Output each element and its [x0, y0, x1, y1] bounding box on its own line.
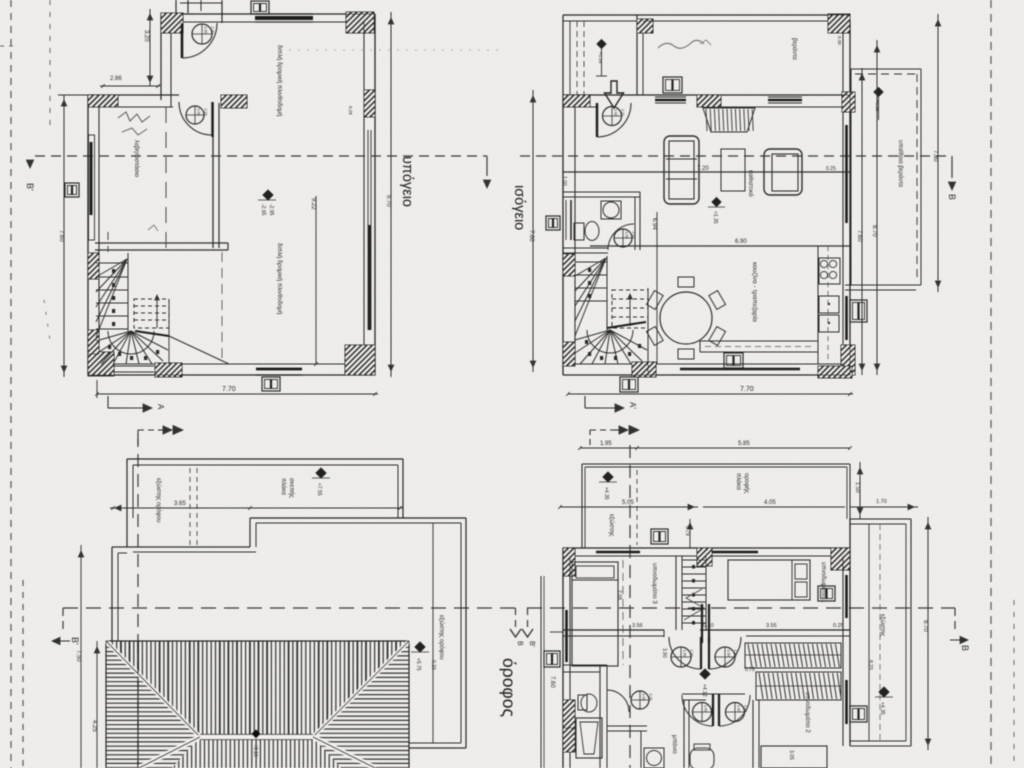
basement bottom door tag square	[262, 377, 280, 391]
svg-text:εξώστης: εξώστης	[608, 514, 614, 536]
upper hall level marker	[700, 669, 710, 679]
upper top wall hatches	[535, 548, 607, 576]
roof level marker 1	[316, 468, 326, 478]
roof terrace dashed chimney	[189, 468, 191, 547]
upper lower door tags	[693, 703, 712, 722]
basement left wall stair hatches	[62, 253, 127, 279]
basement left wall window	[89, 135, 95, 240]
svg-text:+8.10: +8.10	[252, 744, 258, 757]
svg-text:4.25: 4.25	[91, 720, 97, 732]
svg-text:0.30: 0.30	[430, 660, 436, 670]
upper left wall tag	[544, 651, 560, 667]
bedroom3 dashed line	[622, 560, 624, 665]
ground level marker porch	[597, 40, 606, 49]
svg-text:διπλή δρομική πλινθοδομή: διπλή δρομική πλινθοδομή	[276, 45, 283, 116]
basement bottom window left	[114, 365, 154, 367]
section line A upper plan vertical	[629, 445, 631, 768]
upper stair treads	[682, 559, 706, 561]
upper corridor walls	[683, 700, 685, 768]
basement top wall right part	[183, 13, 375, 15]
basement stair treads	[96, 262, 128, 264]
svg-text:Β': Β'	[70, 637, 80, 645]
svg-text:Β: Β	[947, 194, 957, 200]
basement right wall window	[367, 130, 369, 330]
svg-text:+4.35: +4.35	[879, 702, 885, 715]
upper hall door tag right	[715, 647, 735, 667]
basement dim line right 9.70	[390, 12, 392, 377]
svg-text:2.20: 2.20	[621, 109, 625, 116]
scan artifact: right margin dash lines	[990, 0, 992, 768]
svg-text:0.30: 0.30	[837, 36, 842, 45]
roof bottom face vertical hatch	[140, 737, 377, 768]
svg-text:7.60: 7.60	[856, 230, 862, 242]
svg-text:μπάνιο: μπάνιο	[671, 735, 678, 754]
ground sofa	[664, 136, 699, 204]
basement entry door arc	[182, 23, 217, 58]
basement right wall hatch	[337, 90, 403, 117]
section label B' left	[26, 160, 33, 168]
roof top face vertical hatch	[108, 641, 405, 737]
basement stair cut line	[135, 331, 169, 336]
terrace level marker	[874, 88, 883, 97]
svg-text:1.00: 1.00	[625, 232, 629, 239]
basement stair lower fan	[96, 331, 131, 341]
svg-text:7.20: 7.20	[697, 166, 709, 172]
svg-text:7.70: 7.70	[740, 386, 754, 393]
upper closet 2	[756, 672, 841, 700]
boiler room hatch on top wall	[208, 95, 265, 108]
roof hatched surface	[106, 641, 409, 768]
upper hall door arc right	[709, 637, 741, 669]
wall emphasis overlay	[88, 13, 911, 768]
upper hall door leaf left	[700, 637, 702, 669]
svg-text:6.90: 6.90	[735, 239, 747, 245]
roof center level marker	[252, 730, 260, 738]
svg-text:βεράντα: βεράντα	[791, 38, 798, 60]
svg-text:6.94: 6.94	[651, 218, 657, 230]
upper balcony mid line	[868, 524, 870, 741]
basement right wall	[374, 14, 376, 375]
upper corridor washbasin	[644, 748, 664, 768]
basement wall hatch top-left corner	[76, 95, 132, 107]
wc window tag	[546, 216, 560, 230]
section line B-B top plans	[35, 155, 487, 157]
svg-text:3.05: 3.05	[788, 750, 794, 760]
basement dim line left 7.60	[63, 95, 65, 377]
ground kitchen counter right	[817, 246, 819, 364]
roof terrace dim line	[110, 507, 403, 509]
svg-text:8.70: 8.70	[922, 620, 928, 632]
bedroom2 wall	[752, 700, 754, 768]
svg-text:εξώστης: εξώστης	[879, 614, 885, 636]
basement entry hatch block	[141, 13, 205, 33]
svg-text:7.70: 7.70	[222, 386, 236, 393]
ground right wall hatch upper	[822, 92, 881, 112]
basement stair fan arc	[108, 331, 154, 354]
svg-text:-2.65: -2.65	[260, 204, 266, 216]
roof right level marker	[415, 642, 425, 652]
svg-text:όροφος: όροφος	[499, 658, 519, 717]
roof right face horizontal hatch	[310, 643, 409, 768]
ground entry door arrow symbol	[605, 81, 624, 108]
svg-text:0.25: 0.25	[826, 166, 836, 172]
ground left wall	[562, 95, 564, 375]
boiler room bottom wall	[95, 242, 228, 244]
basement level marker	[263, 190, 273, 200]
upper left wall window	[565, 610, 568, 662]
ground table chairs	[678, 349, 694, 359]
basement stair dashed box with arrow	[134, 299, 169, 328]
svg-text:0.75: 0.75	[745, 667, 755, 673]
ground dim verticals right	[861, 68, 863, 375]
ground stair cut line	[607, 322, 646, 328]
svg-text:1.00: 1.00	[727, 650, 731, 657]
bath hatch	[539, 728, 602, 752]
terrace door tag M	[850, 300, 867, 322]
ground main top wall	[563, 94, 850, 96]
basement center dash line piece	[221, 252, 223, 364]
ground porch left edge	[562, 15, 564, 95]
svg-text:8.70: 8.70	[871, 225, 877, 237]
wc door arc	[608, 224, 634, 250]
svg-text:+4.35: +4.35	[603, 487, 609, 500]
svg-text:0.25: 0.25	[833, 623, 844, 629]
basement entry walls going off page top	[175, 0, 177, 13]
wc toilet	[574, 223, 584, 240]
upper dim line 2	[560, 506, 698, 508]
svg-text:1.00: 1.00	[204, 27, 208, 34]
upper small dim arrow	[689, 519, 691, 548]
section line B-B ground plan	[520, 155, 952, 157]
roof right terrace rect	[465, 518, 467, 748]
basement top-right wall hatch	[325, 12, 396, 33]
ground stair fan arc	[587, 330, 633, 353]
svg-text:1.00: 1.00	[614, 109, 618, 116]
ground porch dashed columns	[576, 21, 578, 95]
basement entry door tag	[192, 24, 212, 44]
section line B-B bottom plans	[63, 607, 516, 609]
ground top wall window left	[655, 96, 686, 98]
svg-text:1.00: 1.00	[737, 705, 741, 712]
kitchen stove	[819, 258, 840, 284]
svg-text:2.20: 2.20	[734, 650, 738, 657]
svg-text:1.00: 1.00	[197, 109, 201, 116]
svg-text:διπλή δρομική πλινθοδομή: διπλή δρομική πλινθοδομή	[276, 243, 283, 314]
svg-text:+1.35: +1.35	[598, 52, 603, 64]
svg-text:πλάκα: πλάκα	[280, 478, 287, 495]
ground right terrace outline	[851, 68, 921, 70]
faint scan crease	[280, 49, 500, 51]
svg-text:Β: Β	[516, 641, 523, 646]
svg-text:8.20: 8.20	[867, 660, 873, 670]
basement stair tread numbers	[112, 269, 115, 273]
svg-text:2.20: 2.20	[711, 705, 715, 712]
svg-text:πλάκα: πλάκα	[735, 473, 742, 490]
basement top-left wall	[88, 94, 179, 96]
upper bedroom2 bed	[761, 746, 827, 768]
svg-text:3.90: 3.90	[661, 648, 667, 658]
ground wc walls	[563, 191, 640, 193]
bedroom2 door tag	[850, 706, 867, 722]
svg-text:+1.35: +1.35	[712, 211, 718, 224]
svg-text:+4.12: +4.12	[701, 684, 707, 697]
basement bottom wall hatches	[64, 352, 143, 376]
boiler scribbles	[118, 112, 150, 122]
upper right wall	[849, 519, 851, 746]
upper closet 1	[745, 643, 841, 668]
svg-text:εξώστης ορόφου: εξώστης ορόφου	[155, 478, 162, 523]
section arrow A2 upper	[589, 430, 591, 445]
ground bottom door tag	[620, 377, 638, 392]
ground window tag bottom right	[724, 353, 743, 368]
svg-text:+7.55: +7.55	[316, 483, 322, 496]
upper door tag top	[651, 529, 668, 544]
ground top wall hatch middle	[685, 95, 736, 107]
upper balcony dashed divider	[636, 470, 638, 545]
kitchen counter bottom	[700, 340, 818, 342]
svg-text:εξώστης ορόφου: εξώστης ορόφου	[438, 615, 445, 660]
upper stair zigzag	[684, 589, 704, 620]
ground stair tread numbers	[588, 268, 591, 272]
svg-text:υπαίθρια βεράντα: υπαίθρια βεράντα	[897, 140, 904, 188]
svg-text:λεβητοστάσιο: λεβητοστάσιο	[133, 140, 140, 178]
svg-text:1.00: 1.00	[561, 176, 567, 186]
svg-text:-2.95: -2.95	[268, 204, 274, 216]
upper right wall windows	[845, 575, 848, 618]
upper balcony top outline	[582, 463, 850, 465]
basement interior dim line 9.22	[315, 196, 317, 364]
svg-text:1.00: 1.00	[704, 705, 708, 712]
svg-text:5.05: 5.05	[622, 500, 634, 506]
section arrow A2 roof	[137, 430, 139, 445]
upper hall door arc left	[669, 637, 701, 669]
ground left wall window	[565, 200, 567, 240]
svg-text:5.85: 5.85	[738, 441, 750, 447]
svg-text:2.20: 2.20	[744, 705, 748, 712]
svg-text:1.50: 1.50	[854, 482, 860, 493]
ground entry door tag	[603, 107, 622, 126]
svg-text:2.20: 2.20	[690, 650, 694, 657]
ground level marker living	[712, 198, 721, 207]
svg-text:2.08: 2.08	[616, 590, 622, 600]
upper right balcony outline	[850, 518, 911, 520]
basement entry door leaf	[181, 23, 184, 58]
svg-text:οροφής: οροφής	[743, 473, 750, 493]
ground floor plan	[539, 14, 891, 392]
ground round table	[660, 292, 712, 344]
upper bedroom1 bed	[728, 560, 810, 600]
basement entry side wall	[160, 13, 162, 100]
svg-text:3.65: 3.65	[174, 501, 186, 507]
ground stair lower fan	[575, 330, 610, 340]
svg-text:7.80: 7.80	[932, 150, 938, 162]
basement bottom window dark	[256, 368, 302, 371]
ground top-right corner hatch	[809, 14, 872, 33]
upper balcony level marker	[603, 472, 613, 482]
basement top dim line small	[149, 9, 151, 86]
wc door tag	[614, 229, 632, 247]
ground faint pencil marks	[658, 40, 704, 48]
svg-text:1.00: 1.00	[683, 650, 687, 657]
bath toilet	[578, 695, 587, 710]
boiler room door arc	[179, 102, 212, 135]
upper left dims	[540, 576, 542, 768]
upper left wall	[562, 548, 564, 768]
svg-text:σκεπής: σκεπής	[288, 478, 295, 498]
section line A roof plan vertical	[137, 434, 139, 768]
ground right wall bottom hatch	[811, 345, 891, 375]
ground top wall right part	[643, 20, 850, 22]
ground bottom wall	[563, 374, 850, 376]
svg-text:Β': Β'	[25, 183, 35, 191]
upper left wall hatch	[533, 700, 607, 730]
roof terrace mid line	[432, 523, 434, 743]
svg-text:+5.75: +5.75	[415, 658, 421, 671]
bedroom1 door tag sq	[818, 586, 835, 601]
upper dim verticals right	[859, 462, 861, 519]
ground stair dashed box	[612, 290, 648, 328]
boiler room right wall	[212, 103, 214, 248]
ground dim line 7.20 interior	[563, 171, 850, 173]
svg-text:9.70: 9.70	[385, 195, 391, 207]
svg-text:2.86: 2.86	[110, 76, 122, 82]
boiler room dashed projection lines	[165, 107, 167, 250]
kitchen sink	[819, 296, 839, 313]
svg-text:2.20: 2.20	[204, 109, 208, 116]
svg-text:Β': Β'	[528, 641, 535, 647]
svg-text:2.20: 2.20	[649, 694, 653, 701]
upper hall door leaf right	[708, 637, 710, 669]
upper stair tread numbers	[692, 565, 695, 569]
boiler room door tag	[186, 106, 204, 124]
ground porch divider wall	[636, 15, 638, 95]
basement top tag square	[251, 1, 269, 14]
upper bedroom3 bed	[572, 562, 618, 666]
ground coffee table	[721, 149, 745, 191]
bath shower	[576, 718, 602, 758]
svg-text:2.20: 2.20	[632, 232, 636, 239]
ground stair upper fan	[575, 258, 606, 276]
ground right wall windows dark	[845, 125, 848, 223]
section line A over roof	[137, 641, 139, 768]
bath door arc	[607, 690, 629, 712]
ground entry door arc	[597, 103, 631, 137]
svg-text:Α: Α	[156, 404, 165, 410]
svg-text:1.95: 1.95	[600, 441, 612, 447]
ground bottom window	[680, 368, 800, 371]
svg-text:υπνοδωμάτιο 2: υπνοδωμάτιο 2	[804, 692, 811, 733]
svg-text:3.20: 3.20	[143, 30, 149, 42]
roof terrace band bottom edge	[250, 517, 466, 519]
svg-text:Β: Β	[960, 645, 970, 651]
svg-text:9.22: 9.22	[310, 198, 316, 210]
svg-text:7.50: 7.50	[75, 650, 81, 662]
basement left wall window tag	[65, 183, 79, 197]
svg-text:ισόγειο: ισόγειο	[511, 185, 527, 230]
svg-text:3.55: 3.55	[766, 623, 777, 629]
roof dim verticals left	[80, 545, 82, 768]
svg-text:υπνοδωμάτιο 3: υπνοδωμάτιο 3	[651, 563, 658, 604]
basement bottom wall	[88, 374, 375, 376]
svg-text:1.70: 1.70	[876, 499, 887, 505]
svg-text:κουζίνα - τραπεζαρία: κουζίνα - τραπεζαρία	[751, 262, 759, 322]
ground porch top edge	[563, 14, 850, 16]
svg-text:0.79: 0.79	[684, 526, 690, 536]
svg-text:1.00: 1.00	[642, 694, 646, 701]
ground entry door leaf	[596, 103, 598, 137]
upper bath walls	[599, 665, 601, 768]
svg-text:καθιστικό: καθιστικό	[747, 170, 755, 197]
section elbows B B' center	[515, 608, 517, 630]
ground right wall	[849, 21, 851, 375]
svg-text:4.05: 4.05	[764, 500, 776, 506]
upper lower door pair	[682, 693, 745, 695]
basement left wall	[87, 95, 89, 375]
upper balcony level marker	[879, 687, 889, 697]
boiler room door leaf	[211, 102, 213, 137]
ground dim line 6.90 interior	[590, 245, 850, 247]
basement plan	[62, 0, 406, 391]
upper stair slot walls dark	[701, 604, 703, 643]
roof ridge	[200, 735, 313, 739]
basement top wall window band	[255, 16, 313, 20]
scan artifact: left margin dash lines	[10, 0, 12, 768]
section arrow A' upper	[584, 396, 586, 408]
svg-text:7.60: 7.60	[549, 676, 555, 688]
basement bottom dim 7.70	[97, 393, 378, 395]
ground armchair	[764, 149, 802, 195]
ground stair upper	[703, 108, 755, 132]
upper wc2 toilet	[690, 748, 714, 768]
svg-text:2.20: 2.20	[211, 27, 215, 34]
ground stair lower treads	[575, 261, 607, 263]
svg-text:7.60: 7.60	[58, 230, 64, 242]
ground stair lower walls	[574, 256, 576, 364]
roof plan terrace outline	[110, 459, 466, 748]
upper interior wall horizontal	[563, 629, 664, 631]
upper floor plan	[533, 441, 911, 768]
svg-text:Α': Α'	[628, 402, 637, 409]
basement stair upper fan	[96, 259, 127, 277]
svg-text:0.28: 0.28	[348, 106, 353, 115]
ground stair left hatches	[541, 254, 602, 276]
ground bottom hatches	[617, 362, 676, 377]
svg-text:υπόγειο: υπόγειο	[399, 156, 415, 207]
upper top wall	[563, 547, 850, 549]
svg-text:3.56: 3.56	[632, 623, 643, 629]
upper lower door leafs	[712, 694, 714, 726]
roof left face horizontal hatch	[106, 643, 205, 768]
ground bottom dim 7.70	[568, 393, 853, 395]
wc sink	[601, 201, 621, 219]
ground top wall window right	[768, 96, 802, 98]
ground interior dim 6.94 vertical	[656, 212, 658, 364]
roof hip lines	[106, 641, 200, 737]
ground top sq tag	[663, 77, 682, 93]
section arrow A roof	[107, 396, 109, 408]
upper top dim line	[580, 447, 850, 449]
upper hall door tag left	[671, 647, 691, 667]
upper top wall windows	[596, 551, 640, 554]
upper stair walls	[675, 556, 677, 630]
